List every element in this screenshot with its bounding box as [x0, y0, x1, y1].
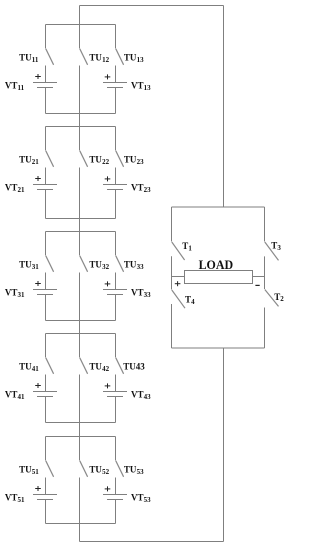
svg-text:TU: TU [19, 260, 32, 270]
svg-text:TU: TU [124, 465, 137, 475]
svg-text:2: 2 [280, 295, 284, 303]
svg-text:VT: VT [131, 389, 144, 399]
svg-text:VT: VT [5, 80, 18, 90]
svg-text:31: 31 [32, 263, 40, 271]
svg-text:VT: VT [5, 492, 18, 502]
svg-text:TU: TU [19, 155, 32, 165]
svg-text:TU: TU [89, 155, 102, 165]
svg-text:53: 53 [144, 496, 152, 504]
svg-text:3: 3 [277, 244, 281, 252]
svg-text:12: 12 [102, 56, 110, 64]
svg-text:22: 22 [102, 158, 110, 166]
svg-text:21: 21 [32, 158, 40, 166]
svg-text:LOAD: LOAD [199, 257, 234, 272]
svg-text:51: 51 [32, 468, 40, 476]
svg-text:VT: VT [5, 182, 18, 192]
svg-text:1: 1 [188, 244, 192, 252]
svg-text:42: 42 [102, 365, 110, 373]
svg-text:TU: TU [19, 362, 32, 372]
svg-text:13: 13 [144, 84, 152, 92]
svg-text:11: 11 [32, 56, 39, 64]
svg-text:VT: VT [131, 287, 144, 297]
svg-text:41: 41 [32, 365, 40, 373]
svg-text:VT: VT [5, 389, 18, 399]
svg-text:33: 33 [137, 263, 145, 271]
svg-text:51: 51 [18, 496, 26, 504]
svg-text:43: 43 [144, 393, 152, 401]
svg-text:TU: TU [124, 155, 137, 165]
svg-text:TU: TU [89, 465, 102, 475]
svg-text:VT: VT [131, 80, 144, 90]
svg-text:TU: TU [124, 260, 137, 270]
svg-text:TU: TU [89, 260, 102, 270]
svg-text:53: 53 [137, 468, 145, 476]
svg-text:32: 32 [102, 263, 110, 271]
svg-text:23: 23 [144, 186, 152, 194]
svg-text:TU: TU [89, 362, 102, 372]
svg-text:52: 52 [102, 468, 110, 476]
svg-text:TU43: TU43 [123, 362, 145, 372]
svg-text:13: 13 [137, 56, 145, 64]
svg-text:VT: VT [5, 287, 18, 297]
svg-text:VT: VT [131, 182, 144, 192]
svg-text:TU: TU [89, 53, 102, 63]
svg-text:4: 4 [191, 298, 195, 306]
svg-text:VT: VT [131, 492, 144, 502]
svg-text:TU: TU [124, 53, 137, 63]
svg-text:TU: TU [19, 465, 32, 475]
svg-text:TU: TU [19, 53, 32, 63]
svg-text:11: 11 [18, 84, 25, 92]
svg-text:41: 41 [18, 393, 26, 401]
svg-text:23: 23 [137, 158, 145, 166]
svg-text:31: 31 [18, 291, 26, 299]
svg-text:33: 33 [144, 291, 152, 299]
svg-text:21: 21 [18, 186, 26, 194]
